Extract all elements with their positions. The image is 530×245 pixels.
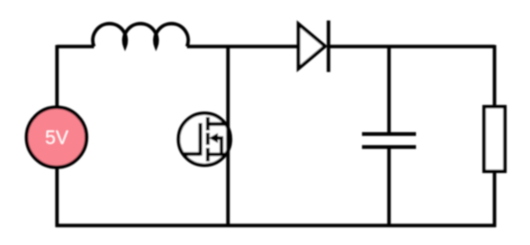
capacitor C1 top plate: [362, 132, 416, 136]
capacitor C1 bottom plate: [362, 145, 416, 149]
transistor Q1 gate bar: [198, 123, 202, 156]
wire top rail diode to right corner: [329, 45, 495, 49]
wire left branch lower: [55, 168, 59, 227]
transistor Q1 gate lead: [184, 152, 200, 156]
wire left branch upper: [55, 45, 59, 107]
voltage source V1 5V: [27, 107, 87, 167]
svg-text:5V: 5V: [45, 128, 69, 149]
wire capacitor branch lower: [387, 147, 391, 227]
wire top rail inductor to diode: [187, 45, 299, 49]
resistor R1: [484, 107, 505, 172]
wire bottom rail: [56, 224, 497, 228]
transistor Q1 body circle: [179, 113, 231, 165]
transistor Q1 source stub: [208, 152, 228, 156]
wire top rail left segment: [57, 45, 94, 49]
wire right branch lower: [493, 173, 497, 227]
transistor Q1 drain stub: [208, 122, 228, 126]
wire mosfet branch: [226, 45, 230, 227]
wire capacitor branch upper: [387, 45, 391, 134]
transistor Q1 body arrow: [209, 133, 222, 154]
inductor L1: [93, 24, 188, 47]
transistor Q1 channel dashes: [206, 117, 210, 161]
wire right branch upper: [493, 45, 497, 106]
diode D1: [299, 21, 329, 73]
